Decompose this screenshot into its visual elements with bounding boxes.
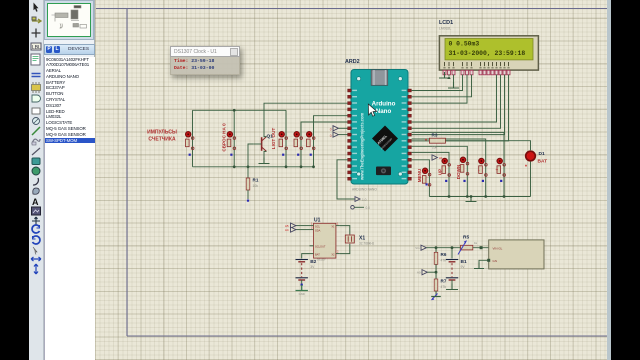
svg-text:ARDUINO NANO: ARDUINO NANO [352,188,377,192]
svg-text:GND: GND [299,292,305,296]
wire: R7 bottom [435,291,437,297]
svg-text:*: * [525,165,527,171]
LCD pin number pads [443,70,510,75]
Arduino pin pads and pin labels [348,89,412,180]
svg-text:0: 0 [330,128,332,132]
toolbar 2D circle icon [33,118,40,125]
wire: R5 to sensor box VIN [473,247,489,249]
svg-text:SCL: SCL [315,225,321,229]
toolbar 2D box icon [32,108,40,114]
svg-text:1: 1 [311,222,313,226]
push-button PLUS [497,158,506,182]
wire: button K5 vertical + row to MCU [314,116,348,167]
wire: crystal to U1 X2 pin [340,244,350,254]
left toolbar [29,0,44,360]
svg-text:47k: 47k [441,285,447,289]
wire: MCU row 12 down to probe arrow [337,160,355,199]
wire: LED D1 to rail [530,162,532,197]
logicstate arrow near MENU [432,155,437,160]
sheet border [96,9,607,337]
svg-text:SCLOUT: SCLOUT [315,244,326,248]
svg-text:X1: X1 [331,225,335,229]
toolbar bus icon [32,74,41,77]
wire+junction VDD [448,75,450,77]
devices header with P/L buttons [44,44,95,55]
wire: box GND pin [479,260,489,266]
push-button MENU [422,168,431,186]
toolbar selection-arrow icon [34,3,39,12]
wire: MENU button vertical + row [412,160,430,197]
U1 pin stubs [310,225,314,227]
wire: right common rail [429,196,530,198]
svg-text:D1: D1 [539,151,545,157]
svg-text:9V: 9V [461,265,466,269]
wire: button K4 vertical + row to MCU [301,122,348,167]
push-button DOWN [460,157,469,182]
battery B1 [451,248,453,259]
wire: minus button vertical + row [412,139,486,197]
svg-text:A: A [32,197,39,207]
junction at R6 top [435,246,438,249]
toolbar arc icon [33,178,38,185]
potentiometer R5 [458,235,478,255]
svg-text:A4: A4 [285,228,289,232]
svg-text:47k: 47k [441,258,447,262]
LCD LM032L module frame [439,36,538,70]
DS1307 clock popup [170,46,240,75]
svg-text:ARD2: ARD2 [345,59,360,65]
wire: U1 X1 pin to crystal [340,226,350,235]
ground under LCD ctrl [464,75,466,77]
toolbar instant-edit icon [32,95,41,102]
device list [44,57,96,360]
svg-text:X2: X2 [331,252,335,256]
wire+logicstate SDA [296,229,310,231]
resistor R3 [425,133,445,150]
svg-text:+: + [496,168,499,173]
wire+logicstate SCL [296,225,310,227]
svg-text:СЧЕТЧИКА: СЧЕТЧИКА [148,137,176,143]
push-button UP [442,158,451,182]
wire: Q1 emitter to ground [264,151,267,158]
svg-text:VIN GL: VIN GL [493,247,503,251]
wire: top analog rail [426,247,460,249]
wire: R3 to LED D1 [445,141,530,151]
LED D1 (BAT) [525,151,547,171]
svg-text:10k: 10k [253,184,259,188]
svg-text:Q1: Q1 [267,134,274,140]
toolbar angle icon [33,247,37,255]
junction node on top rail [233,109,236,112]
svg-text:0.0: 0.0 [366,206,371,210]
junction at box VIN [480,246,483,249]
toolbar subcircuit icon [32,82,41,93]
toolbar closed-path icon [33,188,39,194]
wire: R6 to mid rail [435,264,437,272]
wire: LCD D4 to MCU [412,75,497,123]
schematic overview preview [44,0,94,40]
svg-text:R1: R1 [253,178,259,183]
svg-text:СБРОС НА 0: СБРОС НА 0 [222,123,227,152]
toolbar marker icon [32,217,40,225]
toolbar y-mirror icon [34,264,38,274]
junction mid rail [435,271,438,274]
svg-text:BAT: BAT [538,159,548,165]
wire: bottom common rail [193,166,314,168]
toolbar 2D symbol icon [32,139,40,145]
transistor Q1 (BC337) [254,134,273,152]
wire: left loop left vertical [192,110,194,167]
svg-text:3V: 3V [310,265,315,269]
ground under B1 [446,284,458,290]
svg-text:10k: 10k [432,146,438,150]
svg-text:R7: R7 [441,279,447,284]
resistor R1 10k [246,178,259,191]
svg-text:LCD1: LCD1 [439,20,453,26]
wire: B1 to ground [451,280,453,289]
svg-text:1k: 1k [474,241,478,245]
window right edge strip [607,0,611,360]
wire: DOWN button vertical + row [412,146,468,196]
svg-text:GN: GN [493,259,498,263]
wire: LCD RW to MCU [412,75,467,104]
svg-text:www.TheEngineeringProjects.com: www.TheEngineeringProjects.com [360,112,365,181]
push-button MINUS [479,158,488,182]
svg-text:31-03-2000, 23:59:18: 31-03-2000, 23:59:18 [449,50,526,57]
svg-text:LBL: LBL [32,45,41,51]
toolbar x-mirror icon [31,257,41,261]
junction nodes on right rail [448,195,451,198]
LCD screen [445,39,533,60]
svg-text:R3: R3 [432,133,438,138]
svg-text:2: 2 [337,250,339,254]
svg-text:BAT: BAT [315,252,320,256]
svg-text:Vin: Vin [415,246,420,250]
toolbar rotate-clockwise icon [32,225,39,233]
ground on right rail [470,197,472,202]
wire: R6 vertical [435,248,437,253]
svg-text:0: 0 [330,134,332,138]
svg-text:A0: A0 [417,271,421,275]
ground under B2 [296,285,308,291]
ground under Q1 [259,158,270,164]
toolbar filled-box icon [32,158,40,165]
Arduino Nano ARD2 board [351,70,408,185]
ground under R7 [431,296,441,298]
svg-text:DS1307: DS1307 [317,259,326,262]
svg-text:DOWN: DOWN [456,164,461,179]
wire: LCD D7 to MCU [412,75,509,141]
wire: B2 to ground [301,280,303,285]
svg-text:B2: B2 [310,259,316,265]
wire: BAT pin to battery B2 [302,254,310,259]
svg-text:UP: UP [438,169,443,175]
logicprobe circle node [351,206,355,210]
svg-text:*: * [425,139,427,145]
wire: LCD D5 to MCU [412,75,501,129]
svg-text:32.768kHz: 32.768kHz [359,242,375,246]
toolbar symbol-picture icon [32,207,41,215]
push-button K2 (reset) [227,132,236,156]
toolbar rotate-anticlockwise icon [33,236,40,244]
wire: Q1 collector to MCU row [264,103,348,136]
wire: R1 bottom stub [247,190,249,199]
toolbar 2D path icon [32,148,40,155]
svg-text:Nano: Nano [376,108,392,115]
object selector panel [44,0,95,360]
wire: button K2 vertical [233,110,235,167]
svg-text:1: 1 [337,222,339,226]
ground under LCD VSS [444,75,446,79]
svg-text:1.0: 1.0 [362,198,367,202]
wire: plus button vertical + row [412,132,504,196]
wire: LCD D6 to MCU [412,75,505,135]
svg-text:R5: R5 [463,235,469,241]
toolbar junction-dot icon [32,29,41,38]
wire: left loop top rail y110 [193,109,287,111]
junction nodes on bottom rail [233,165,236,168]
svg-text:U1: U1 [314,218,321,224]
toolbar filled-circle icon [32,167,40,175]
wire: bottom rail to R1 [247,167,249,178]
svg-text:SDA: SDA [315,229,321,233]
ground under LCD VEE [453,75,455,89]
svg-text:0 0.50m3: 0 0.50m3 [449,41,480,48]
logicprobe arrow at U1 top [355,197,360,202]
push-button K4 [294,132,303,156]
wire: UP button vertical + row [412,152,449,196]
svg-text:2: 2 [311,226,313,230]
mouse cursor [368,104,376,116]
svg-text:MENU: MENU [417,168,422,182]
push-button K3 [279,132,288,156]
battery B2 [296,259,317,280]
IC U1 DS1307 [314,218,336,262]
toolbar wire-label icon [31,43,41,51]
toolbar component icon [32,17,41,23]
wire: Q1 base from R1 node [248,144,254,167]
wire: LCD RS to MCU [412,75,463,91]
svg-text:A1: A1 [439,156,443,160]
svg-text:ИМПУЛЬСЫ: ИМПУЛЬСЫ [147,130,177,136]
wire: mid rail [427,271,436,273]
svg-text:B1: B1 [461,259,467,265]
svg-text:LM032L: LM032L [439,27,451,31]
LCD pin name ticks [443,62,509,68]
resistor R6 47k [434,252,447,264]
gas sensor module box [489,240,544,269]
ground under box GND [474,263,484,269]
wire: LCD E to MCU [412,75,472,97]
toolbar text icon [32,197,39,207]
wire: button K3 vertical [285,110,287,167]
blue probe arrow at R7 bottom [432,294,438,301]
svg-text:R6: R6 [441,252,447,257]
push-button K1 (impulse counter) [186,132,195,156]
toolbar 2D line icon [32,127,40,135]
toolbar text-script icon [31,54,40,65]
push-button K5 [307,132,316,156]
svg-text:Arduino: Arduino [372,101,396,108]
resistor R7 47k [435,272,437,279]
